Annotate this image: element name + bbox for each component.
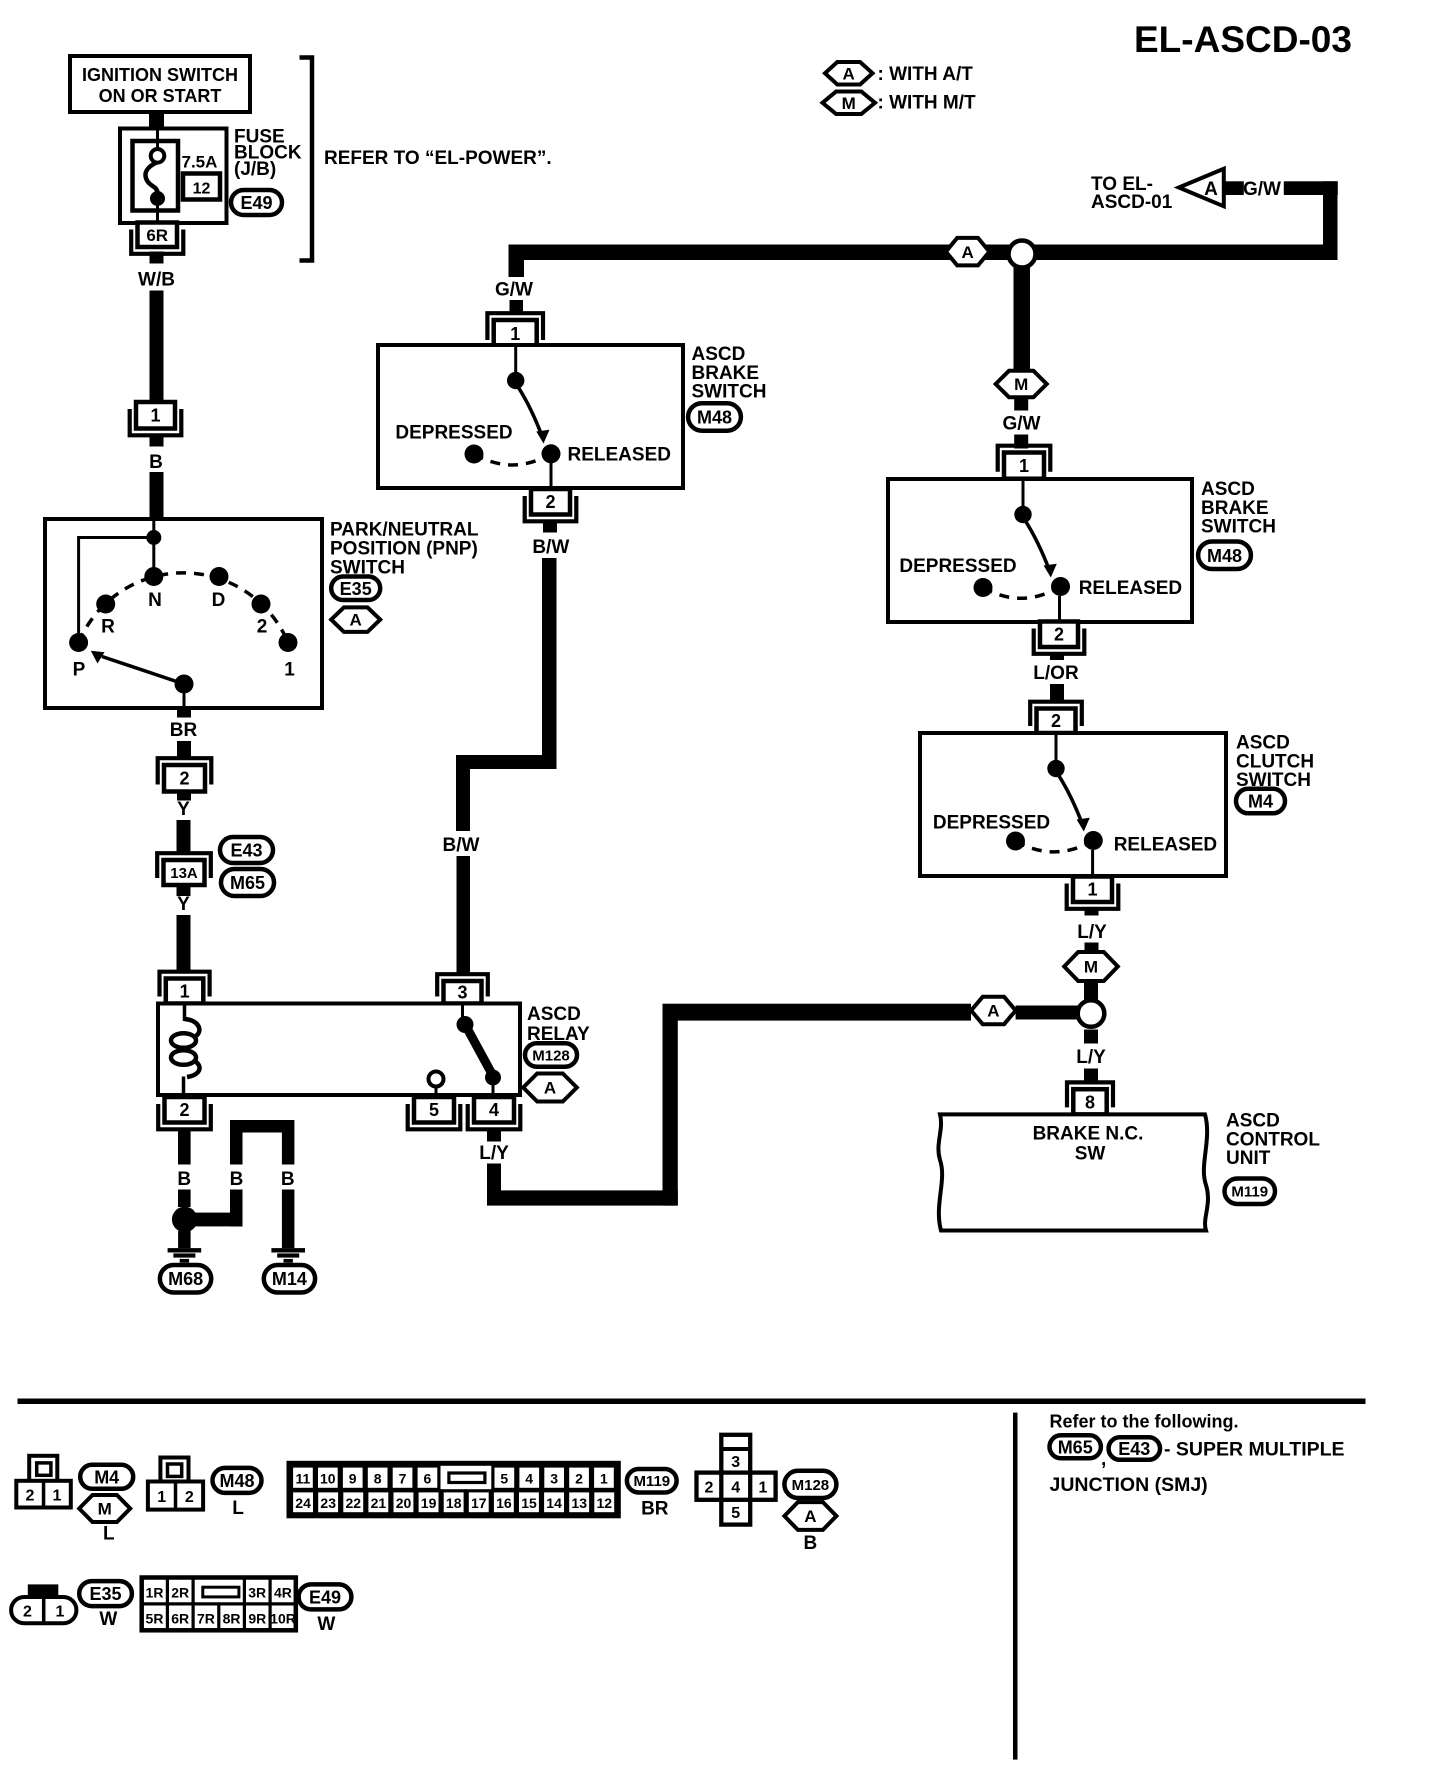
brake switch arm with arrow xyxy=(518,386,550,444)
svg-text:2: 2 xyxy=(23,1604,32,1621)
svg-text:UNIT: UNIT xyxy=(1226,1148,1271,1169)
svg-text:4: 4 xyxy=(731,1480,740,1497)
hexagon M (with M/T) xyxy=(996,371,1047,397)
svg-text:IGNITION SWITCH: IGNITION SWITCH xyxy=(82,65,238,85)
svg-text:B/W: B/W xyxy=(443,835,480,856)
svg-text:1: 1 xyxy=(56,1604,65,1621)
connector ref M4 oval xyxy=(1236,789,1285,814)
connector ref M128 oval xyxy=(784,1471,836,1498)
svg-text:B: B xyxy=(149,452,163,473)
dashed arc depressed-released xyxy=(474,454,551,465)
relay labels xyxy=(527,1004,590,1045)
svg-text:21: 21 xyxy=(371,1495,387,1511)
fuse number 12 box xyxy=(183,174,220,200)
svg-text:L: L xyxy=(103,1524,115,1545)
svg-text:B/W: B/W xyxy=(532,537,569,558)
ground symbol M14 xyxy=(271,1248,305,1252)
svg-text:A: A xyxy=(1204,179,1218,200)
svg-text:,: , xyxy=(1101,1449,1106,1470)
contact R xyxy=(96,595,115,614)
wire released to pin 2 xyxy=(550,463,553,488)
svg-text:M4: M4 xyxy=(1248,792,1273,812)
connector ref M128 oval xyxy=(525,1043,577,1067)
brake switch pivot xyxy=(514,347,517,380)
svg-text:L: L xyxy=(232,1498,244,1519)
svg-text:8R: 8R xyxy=(223,1611,241,1627)
svg-text:7.5A: 7.5A xyxy=(182,153,218,172)
svg-text:G/W: G/W xyxy=(1243,179,1281,200)
hexagon A (with A/T) xyxy=(523,1074,577,1102)
svg-text:6R: 6R xyxy=(146,226,168,245)
svg-text:BR: BR xyxy=(170,720,198,741)
contact 2 xyxy=(252,595,271,614)
svg-text:7: 7 xyxy=(399,1470,407,1486)
connector 3 (relay pin) xyxy=(437,974,488,1003)
svg-text:2: 2 xyxy=(1054,625,1064,645)
contact DEPRESSED xyxy=(465,445,484,464)
svg-text:E43: E43 xyxy=(1118,1439,1150,1459)
svg-text:8: 8 xyxy=(374,1470,382,1486)
svg-text:G/W: G/W xyxy=(1003,414,1041,435)
wire pin4 horizontal run xyxy=(487,1190,678,1205)
fuse 7.5A symbol xyxy=(133,129,179,223)
svg-text:B: B xyxy=(230,1169,244,1190)
svg-text:SWITCH: SWITCH xyxy=(692,382,767,403)
svg-text:B: B xyxy=(281,1169,295,1190)
connector 2 (clutch switch) xyxy=(1030,702,1082,733)
svg-text:10R: 10R xyxy=(270,1611,296,1627)
svg-text:SW: SW xyxy=(1075,1144,1106,1165)
note TO EL-ASCD-01 xyxy=(1091,174,1173,213)
svg-text:ASCD: ASCD xyxy=(692,344,746,365)
wire junction to bridge xyxy=(195,1213,243,1227)
svg-text:1: 1 xyxy=(284,660,295,681)
wire to arrow G/W xyxy=(1284,181,1338,195)
connector 8 (control unit) xyxy=(1067,1082,1113,1114)
dashed arc xyxy=(983,587,1061,599)
svg-text:M119: M119 xyxy=(1231,1184,1268,1201)
svg-text:RELEASED: RELEASED xyxy=(1079,578,1182,599)
svg-text:15: 15 xyxy=(521,1495,537,1511)
svg-text:: WITH A/T: : WITH A/T xyxy=(878,64,974,85)
legend hexagon A: WITH A/T xyxy=(825,62,973,85)
PNP selector arm with arrow xyxy=(91,651,184,684)
wire horizontal to hexagon A xyxy=(663,1004,972,1021)
svg-text:M68: M68 xyxy=(168,1269,203,1289)
svg-text:3: 3 xyxy=(731,1454,740,1471)
wire right corner up xyxy=(1323,181,1338,260)
svg-text:16: 16 xyxy=(496,1495,512,1511)
svg-text:5: 5 xyxy=(731,1505,740,1522)
connector 5 (relay pin) xyxy=(408,1097,461,1129)
relay switch contact from pin 3 xyxy=(461,1004,464,1018)
svg-text:24: 24 xyxy=(295,1495,311,1511)
connector 2 (brake switch) xyxy=(525,489,577,521)
connector ref M119 oval xyxy=(1225,1179,1276,1205)
svg-text:5R: 5R xyxy=(146,1611,164,1627)
wire junction to ground M68 xyxy=(178,1231,191,1248)
svg-text:23: 23 xyxy=(320,1495,336,1511)
wire ignition to fuse block xyxy=(149,110,164,130)
legend connector E35 xyxy=(11,1584,76,1623)
svg-text:20: 20 xyxy=(396,1495,412,1511)
svg-text:E43: E43 xyxy=(230,841,262,861)
wire junction to N contact xyxy=(152,538,155,577)
wire relay pin4 L/Y xyxy=(487,1131,501,1142)
svg-text:ASCD: ASCD xyxy=(1201,479,1255,500)
wire B/W vertical from brake switch xyxy=(542,558,557,763)
control unit labels xyxy=(1226,1111,1320,1170)
svg-text:3R: 3R xyxy=(248,1585,266,1601)
contact D xyxy=(210,567,229,586)
svg-text:4R: 4R xyxy=(274,1585,292,1601)
svg-text:M: M xyxy=(98,1500,112,1519)
svg-text:8: 8 xyxy=(1085,1092,1095,1112)
legend connector M128 cross xyxy=(697,1435,776,1525)
svg-text:4: 4 xyxy=(525,1470,533,1486)
wire PNP to connector 2 BR xyxy=(177,708,191,718)
svg-text:6: 6 xyxy=(424,1470,432,1486)
brake switch 2 labels xyxy=(1201,479,1276,538)
connector 1 (E35 pin) xyxy=(130,402,182,435)
hexagon A on wire xyxy=(971,997,1016,1024)
wire vertical up to A/T node xyxy=(663,1004,678,1206)
contact RELEASED xyxy=(542,444,561,463)
svg-text:M: M xyxy=(842,94,856,113)
ASCD clutch switch box M4 xyxy=(920,733,1226,876)
main bus wire G/W horizontal xyxy=(509,245,1338,261)
ASCD control unit box M119 xyxy=(938,1114,1208,1230)
relay switch arm xyxy=(467,1028,492,1074)
svg-text:5: 5 xyxy=(500,1470,508,1486)
svg-text:10: 10 xyxy=(320,1470,336,1486)
ground junction dot xyxy=(172,1207,198,1233)
relay coil xyxy=(171,1004,200,1096)
svg-text:BRAKE N.C.: BRAKE N.C. xyxy=(1033,1124,1144,1145)
svg-text:A: A xyxy=(544,1079,556,1098)
connector 2 (brake switch 2) xyxy=(1034,622,1085,654)
clutch switch labels xyxy=(1236,733,1314,792)
legend connector M119 24-pin xyxy=(289,1463,618,1516)
svg-text:17: 17 xyxy=(471,1495,487,1511)
legend hexagon M: WITH M/T xyxy=(823,92,977,115)
svg-text:G/W: G/W xyxy=(495,280,533,301)
svg-text:E35: E35 xyxy=(89,1584,121,1604)
ground bridge inverted-U wire xyxy=(230,1120,294,1133)
svg-text:7R: 7R xyxy=(197,1611,215,1627)
svg-text:RELEASED: RELEASED xyxy=(568,445,671,466)
hexagon M xyxy=(79,1495,130,1522)
connector ref M48 oval xyxy=(688,403,741,431)
dashed arc xyxy=(1016,841,1094,852)
wire junction to P contact xyxy=(79,538,154,643)
svg-text:Y: Y xyxy=(177,799,190,820)
svg-text:9: 9 xyxy=(349,1470,357,1486)
connector ref M119 oval xyxy=(627,1469,677,1493)
svg-text:2: 2 xyxy=(545,492,555,512)
svg-text:2: 2 xyxy=(575,1470,583,1486)
svg-text:11: 11 xyxy=(295,1470,310,1486)
svg-text:M48: M48 xyxy=(1207,546,1242,566)
svg-text:22: 22 xyxy=(346,1495,362,1511)
connector ref E43 oval xyxy=(220,837,273,863)
contact RELEASED xyxy=(1084,831,1103,850)
svg-text:E49: E49 xyxy=(240,193,272,213)
svg-text:W: W xyxy=(99,1609,117,1630)
svg-text:1R: 1R xyxy=(146,1585,164,1601)
ASCD brake switch box M48 xyxy=(378,345,683,488)
svg-text:ON OR START: ON OR START xyxy=(99,86,222,106)
wire relay pin2 down B xyxy=(178,1131,191,1165)
svg-text:W: W xyxy=(317,1614,335,1635)
brake switch labels xyxy=(692,344,767,403)
ground symbol M68 xyxy=(168,1248,202,1252)
hexagon A on main bus xyxy=(946,238,990,266)
contact 1 xyxy=(279,633,298,652)
connector 1 (relay pin) xyxy=(160,972,210,1004)
svg-text:DEPRESSED: DEPRESSED xyxy=(899,556,1016,577)
svg-text:A: A xyxy=(350,611,362,630)
svg-text:2: 2 xyxy=(179,1100,189,1120)
PNP junction node xyxy=(152,519,155,537)
svg-text:Y: Y xyxy=(177,894,190,915)
legend connector M48 xyxy=(148,1458,203,1510)
svg-text:3: 3 xyxy=(550,1470,558,1486)
svg-text:M48: M48 xyxy=(697,408,732,428)
connector ref E43 oval xyxy=(1109,1437,1160,1460)
arrow to EL-ASCD-01 xyxy=(1179,169,1224,207)
svg-text:L/Y: L/Y xyxy=(479,1143,509,1164)
svg-text:(J/B): (J/B) xyxy=(234,159,276,180)
svg-text:3: 3 xyxy=(457,983,467,1003)
vertical divider xyxy=(1013,1413,1018,1760)
svg-text:M: M xyxy=(1014,375,1028,394)
wire hexagon to circle node xyxy=(1016,1006,1079,1020)
svg-text:ASCD: ASCD xyxy=(527,1004,581,1025)
hexagon A (with A/T) xyxy=(331,607,380,632)
ignition switch box xyxy=(70,56,250,112)
svg-text:M65: M65 xyxy=(230,873,265,893)
svg-text:M48: M48 xyxy=(219,1471,254,1491)
svg-text:1: 1 xyxy=(758,1480,767,1497)
wire B/W corner xyxy=(463,762,557,831)
svg-text:2: 2 xyxy=(257,617,268,638)
svg-text:RELEASED: RELEASED xyxy=(1114,835,1217,856)
svg-text:1: 1 xyxy=(600,1470,608,1486)
svg-text:A: A xyxy=(843,64,855,83)
svg-text:E49: E49 xyxy=(309,1587,341,1607)
svg-text:REFER TO “EL-POWER”.: REFER TO “EL-POWER”. xyxy=(324,148,552,169)
clutch switch pivot xyxy=(1047,760,1064,777)
svg-text:2: 2 xyxy=(1051,711,1061,731)
connector ref E49 oval xyxy=(299,1584,352,1609)
connector 1 (clutch switch) xyxy=(1067,877,1119,909)
svg-text:Refer to the following.: Refer to the following. xyxy=(1050,1412,1239,1432)
ASCD relay box M128 xyxy=(158,1004,520,1096)
connector 6R xyxy=(131,223,183,254)
svg-text:E35: E35 xyxy=(340,579,372,599)
connector 2 (relay pin) xyxy=(158,1097,211,1129)
svg-text:5: 5 xyxy=(429,1100,439,1120)
wire circle to L/Y xyxy=(1084,1030,1098,1044)
park/neutral position switch box E35 xyxy=(45,519,322,708)
svg-text:ASCD-01: ASCD-01 xyxy=(1091,192,1173,213)
svg-text:A: A xyxy=(804,1507,816,1526)
svg-text:B: B xyxy=(804,1533,818,1554)
wire 6R to connector 1 W/B xyxy=(150,252,164,264)
svg-text:SWITCH: SWITCH xyxy=(1201,517,1276,538)
svg-text:: WITH M/T: : WITH M/T xyxy=(878,93,977,114)
svg-text:6R: 6R xyxy=(171,1611,189,1627)
svg-text:18: 18 xyxy=(446,1495,462,1511)
relay open contact (pin 5) xyxy=(429,1072,444,1087)
svg-text:DEPRESSED: DEPRESSED xyxy=(933,813,1050,834)
svg-text:2: 2 xyxy=(704,1480,713,1497)
brake switch 2 arm with arrow xyxy=(1025,520,1057,578)
svg-text:L/Y: L/Y xyxy=(1076,1047,1106,1068)
svg-text:P: P xyxy=(73,660,86,681)
wire circle node down to hexagon M xyxy=(1014,266,1031,372)
svg-text:1: 1 xyxy=(510,324,520,344)
legend connector E49 grid xyxy=(142,1578,296,1631)
svg-text:A: A xyxy=(961,243,973,262)
connector ref M4 oval xyxy=(80,1465,133,1489)
ASCD brake switch box M48 (M/T) xyxy=(888,479,1192,622)
svg-text:PARK/NEUTRAL: PARK/NEUTRAL xyxy=(330,520,479,541)
contact RELEASED xyxy=(1051,577,1070,596)
svg-text:12: 12 xyxy=(597,1495,613,1511)
contact DEPRESSED xyxy=(1006,832,1025,851)
connector ref E35 oval xyxy=(331,577,380,601)
junction circle node (A/T - M/T) xyxy=(1078,1000,1105,1027)
junction circle node on main bus xyxy=(1009,241,1036,268)
PNP labels xyxy=(330,520,479,579)
connector ref E35 oval xyxy=(79,1581,132,1606)
svg-text:JUNCTION (SMJ): JUNCTION (SMJ) xyxy=(1050,1474,1208,1496)
connector ref M48 oval xyxy=(213,1468,262,1493)
svg-text:BR: BR xyxy=(641,1499,669,1520)
svg-text:M128: M128 xyxy=(792,1477,830,1494)
svg-text:1: 1 xyxy=(53,1488,62,1505)
svg-text:A: A xyxy=(987,1002,999,1021)
svg-text:B: B xyxy=(177,1169,191,1190)
hexagon A xyxy=(784,1502,836,1530)
separator line xyxy=(18,1399,1366,1405)
connector ref M48 oval xyxy=(1198,542,1251,570)
svg-text:13: 13 xyxy=(571,1495,587,1511)
connector 1 (brake switch 2) xyxy=(998,446,1051,479)
PNP dashed gate arc xyxy=(79,573,288,643)
svg-text:2: 2 xyxy=(26,1488,35,1505)
svg-text:2R: 2R xyxy=(171,1585,189,1601)
svg-text:M65: M65 xyxy=(1058,1437,1093,1457)
label BRAKE N.C. SW xyxy=(1033,1124,1144,1165)
contact DEPRESSED xyxy=(974,578,993,597)
fuse block labels FUSE BLOCK (J/B) xyxy=(234,127,302,181)
connector 2 (E35 pin) xyxy=(158,758,212,791)
wire main bus down to brake switch G/W xyxy=(509,245,525,278)
svg-text:1: 1 xyxy=(180,982,190,1002)
svg-text:1: 1 xyxy=(1087,880,1097,900)
svg-text:DEPRESSED: DEPRESSED xyxy=(395,423,512,444)
fuse block box (J/B) xyxy=(120,129,227,224)
svg-text:2: 2 xyxy=(179,769,189,789)
svg-text:1: 1 xyxy=(150,406,160,426)
svg-text:R: R xyxy=(101,617,115,638)
connector 13A (SMJ) xyxy=(157,853,211,885)
svg-text:D: D xyxy=(212,590,226,611)
svg-text:M119: M119 xyxy=(633,1473,670,1490)
connector ref E49 oval xyxy=(231,190,282,215)
svg-text:2: 2 xyxy=(185,1489,194,1506)
svg-text:1: 1 xyxy=(1019,456,1029,476)
svg-text:ASCD: ASCD xyxy=(1226,1111,1280,1132)
connector 4 (relay pin) xyxy=(468,1097,521,1129)
svg-text:N: N xyxy=(148,590,162,611)
svg-text:L/Y: L/Y xyxy=(1077,922,1107,943)
connector 1 (brake switch) xyxy=(487,313,543,347)
PNP pivot dot xyxy=(175,675,194,694)
svg-text:9R: 9R xyxy=(248,1611,266,1627)
svg-text:12: 12 xyxy=(193,181,211,198)
contact P xyxy=(69,633,88,652)
bracket refer note xyxy=(300,58,313,261)
svg-text:14: 14 xyxy=(546,1495,562,1511)
svg-text:M: M xyxy=(1084,958,1098,977)
svg-text:ASCD: ASCD xyxy=(1236,733,1290,754)
brake switch 2 pivot xyxy=(1014,506,1031,523)
connector ref M65 oval xyxy=(1050,1435,1101,1458)
svg-text:13A: 13A xyxy=(170,865,198,882)
svg-text:L/OR: L/OR xyxy=(1033,663,1079,684)
svg-text:4: 4 xyxy=(489,1100,499,1120)
connector ref M65 oval xyxy=(221,869,274,896)
svg-text:POSITION (PNP): POSITION (PNP) xyxy=(330,539,478,560)
contact N xyxy=(144,567,163,586)
clutch switch arm with arrow xyxy=(1058,774,1090,832)
svg-text:EL-ASCD-03: EL-ASCD-03 xyxy=(1134,19,1352,60)
svg-text:- SUPER MULTIPLE: - SUPER MULTIPLE xyxy=(1164,1439,1345,1461)
svg-text:W/B: W/B xyxy=(138,270,175,291)
svg-text:1: 1 xyxy=(157,1489,166,1506)
svg-text:M14: M14 xyxy=(272,1269,307,1289)
svg-text:M128: M128 xyxy=(532,1047,570,1064)
svg-text:19: 19 xyxy=(421,1495,437,1511)
legend connector M4 xyxy=(16,1456,71,1508)
svg-text:M4: M4 xyxy=(94,1467,119,1487)
hexagon M (with M/T) lower xyxy=(1064,952,1118,981)
